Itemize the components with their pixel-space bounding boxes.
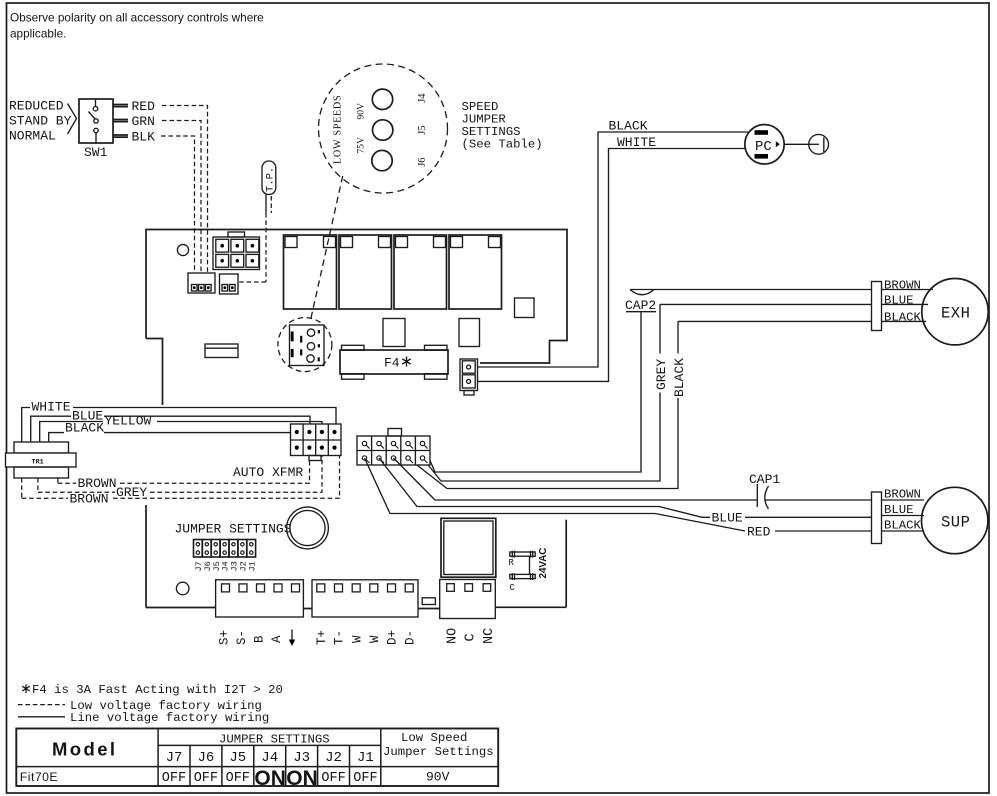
speed jumper settings note xyxy=(462,100,543,152)
svg-text:NORMAL: NORMAL xyxy=(9,129,56,144)
wall plug symbol xyxy=(809,134,829,154)
connector P3 (3-pin, SW1 wires) xyxy=(188,273,215,293)
label BLUE (SUP) xyxy=(884,503,914,517)
svg-text:R: R xyxy=(509,558,515,568)
label BLACK (SUP) xyxy=(884,519,922,533)
svg-text:STAND BY: STAND BY xyxy=(9,114,72,129)
board hole 2 xyxy=(176,582,189,595)
wire BLUE (EXH) xyxy=(660,303,928,305)
label GREY xyxy=(654,359,669,390)
svg-text:75V: 75V xyxy=(355,137,366,154)
svg-text:J4: J4 xyxy=(261,750,278,766)
labels J7-J1 xyxy=(194,561,257,571)
wire BROWN dashed (TR1) xyxy=(58,461,310,484)
svg-text:(See Table): (See Table) xyxy=(462,138,543,152)
svg-text:BLACK: BLACK xyxy=(65,420,104,435)
label BLACK (PC) xyxy=(609,119,648,134)
svg-text:BLUE: BLUE xyxy=(712,511,743,526)
svg-text:WHITE: WHITE xyxy=(32,400,71,415)
label down arrow xyxy=(289,630,295,647)
wire GRN dashed xyxy=(162,121,201,274)
switch SW1 bracket xyxy=(68,104,77,135)
svg-text:J1: J1 xyxy=(247,561,257,571)
board jumper block dashed circle xyxy=(278,318,332,372)
svg-text:OFF: OFF xyxy=(321,771,345,786)
svg-text:W: W xyxy=(368,635,382,643)
label 90V xyxy=(356,103,367,120)
dashed leader to board jumper xyxy=(311,176,343,318)
label J6 xyxy=(417,157,428,166)
relay contact rect xyxy=(422,598,435,605)
capacitor CAP2 xyxy=(625,290,656,313)
wire R-C link xyxy=(529,556,531,574)
label 24VAC xyxy=(538,548,549,579)
svg-text:Line voltage factory wiring: Line voltage factory wiring xyxy=(70,711,269,725)
svg-text:B: B xyxy=(253,635,267,643)
svg-text:J3: J3 xyxy=(293,750,310,766)
svg-text:ON: ON xyxy=(254,767,286,790)
note F4 xyxy=(22,683,283,697)
svg-text:SW1: SW1 xyxy=(84,145,108,160)
svg-text:J1: J1 xyxy=(357,750,374,766)
relay K1 xyxy=(284,235,337,309)
svg-text:BLK: BLK xyxy=(132,129,156,144)
wire GREY vertical xyxy=(423,304,661,481)
wire BLACK to PC xyxy=(478,132,749,367)
label LOW SPEEDS xyxy=(333,95,344,164)
note text top-left xyxy=(10,11,264,41)
label AUTO XFMR xyxy=(233,465,303,480)
svg-text:J6: J6 xyxy=(198,750,215,766)
label YELLOW (TR1) xyxy=(105,414,152,429)
SW1 reference label xyxy=(84,145,108,160)
relay K3 xyxy=(394,235,447,309)
svg-text:NC: NC xyxy=(482,628,497,644)
wire GRN label xyxy=(132,114,155,129)
legend low voltage xyxy=(18,699,262,713)
wire WHITE (TR1) xyxy=(22,408,336,443)
label BLUE (EXH) xyxy=(884,293,914,307)
label WHITE (TR1) xyxy=(32,400,71,415)
svg-text:S+: S+ xyxy=(218,630,232,645)
component rect mid left xyxy=(383,319,405,347)
wire BLK label xyxy=(132,129,156,144)
svg-text:C: C xyxy=(464,633,479,641)
component square top right xyxy=(515,298,535,318)
label BLACK (vertical) xyxy=(672,358,687,397)
legend line voltage xyxy=(18,711,269,725)
svg-text:CAP1: CAP1 xyxy=(749,472,780,487)
supply motor SUP xyxy=(922,487,988,553)
label J4 xyxy=(417,93,428,103)
label BROWN (dash1) xyxy=(78,476,117,491)
svg-text:T-: T- xyxy=(333,630,347,645)
wire BLACK vertical xyxy=(408,321,678,488)
wire RED (SUP) xyxy=(365,458,925,531)
svg-text:BLACK: BLACK xyxy=(884,310,922,324)
svg-text:BLACK: BLACK xyxy=(884,519,922,533)
label J5 xyxy=(417,125,428,134)
SW1 pin stubs xyxy=(113,105,128,138)
svg-text:JUMPER SETTINGS: JUMPER SETTINGS xyxy=(175,521,292,536)
label BLACK (TR1) xyxy=(65,420,104,435)
relay 24VAC xyxy=(441,518,496,577)
wire BLACK (EXH) xyxy=(678,320,926,322)
relay K2 xyxy=(339,235,392,309)
terminal block TB2 xyxy=(312,580,418,617)
svg-text:GRN: GRN xyxy=(132,114,155,129)
svg-text:OFF: OFF xyxy=(194,771,218,786)
svg-text:RED: RED xyxy=(132,99,156,114)
svg-text:BLUE: BLUE xyxy=(884,503,914,517)
wire PC to plug xyxy=(784,143,809,145)
relay K4 xyxy=(449,235,502,309)
wire YELLOW (TR1) xyxy=(40,422,322,443)
svg-text:JUMPER SETTINGS: JUMPER SETTINGS xyxy=(219,732,330,746)
svg-text:BROWN: BROWN xyxy=(78,476,117,491)
wire WHITE to PC xyxy=(478,149,746,382)
svg-text:NO: NO xyxy=(446,628,461,644)
svg-text:A: A xyxy=(270,635,284,643)
label BLUE (TR1) xyxy=(72,408,103,423)
wire BLUE (SUP) xyxy=(379,458,924,517)
svg-text:OFF: OFF xyxy=(353,771,377,786)
svg-text:TR1: TR1 xyxy=(32,459,44,467)
svg-text:REDUCED: REDUCED xyxy=(9,99,64,114)
jumper block J7-J1 xyxy=(194,540,256,558)
label BROWN (dash2) xyxy=(70,492,109,507)
label JUMPER SETTINGS xyxy=(175,521,292,536)
labels S+ S- B A arrow xyxy=(218,630,285,645)
component bar left xyxy=(205,344,238,358)
power cord connector PC xyxy=(745,125,784,164)
svg-text:Jumper Settings: Jumper Settings xyxy=(383,745,494,759)
wire BROWN (EXH) xyxy=(630,289,933,291)
jumper C xyxy=(510,573,536,593)
label GREY (dash) xyxy=(116,485,147,500)
svg-text:C: C xyxy=(510,583,515,593)
svg-text:24VAC: 24VAC xyxy=(538,548,549,579)
svg-text:J2: J2 xyxy=(325,750,342,766)
svg-text:T+: T+ xyxy=(315,630,329,645)
connector P6 (2x5 motor) xyxy=(357,429,430,466)
wire CAP2 down xyxy=(423,312,642,472)
svg-text:BROWN: BROWN xyxy=(884,488,921,502)
connector AUTO XFMR (2x4) xyxy=(291,424,342,461)
exhaust motor EXH xyxy=(922,279,988,345)
wire RED label xyxy=(132,99,156,114)
exhaust motor connector bar xyxy=(872,282,882,331)
svg-text:ON: ON xyxy=(286,767,318,790)
svg-text:BROWN: BROWN xyxy=(70,492,109,507)
labels NO C NC xyxy=(446,628,497,644)
svg-text:J5: J5 xyxy=(417,125,428,134)
svg-text:Fit70E: Fit70E xyxy=(20,770,58,784)
svg-text:applicable.: applicable. xyxy=(10,27,66,41)
programming ring xyxy=(287,507,329,549)
jumper J6 pad xyxy=(372,150,392,170)
control board outline xyxy=(146,230,567,609)
terminal block TB1 xyxy=(216,580,304,617)
svg-text:J5: J5 xyxy=(229,750,246,766)
wire BLUE (TR1) xyxy=(31,416,310,442)
svg-text:RED: RED xyxy=(747,524,771,539)
svg-text:YELLOW: YELLOW xyxy=(105,414,152,429)
board speed jumper connector xyxy=(290,325,325,366)
svg-text:90V: 90V xyxy=(356,103,367,120)
component rect mid right xyxy=(459,319,480,347)
svg-text:AUTO XFMR: AUTO XFMR xyxy=(233,465,303,480)
svg-text:Model: Model xyxy=(52,739,117,760)
svg-text:BLACK: BLACK xyxy=(609,119,648,134)
label WHITE (PC) xyxy=(617,135,656,150)
svg-text:SUP: SUP xyxy=(941,513,970,531)
svg-text:EXH: EXH xyxy=(941,305,970,323)
svg-text:OFF: OFF xyxy=(226,771,250,786)
switch SW1 xyxy=(79,99,113,143)
wire RED dashed xyxy=(162,106,208,274)
jumper J4 pad xyxy=(372,89,392,109)
svg-text:Observe polarity on all access: Observe polarity on all accessory contro… xyxy=(10,11,264,25)
wire BROWN2 dashed (TR1) xyxy=(22,456,340,499)
table xyxy=(16,729,498,791)
board mounting hole xyxy=(177,244,188,255)
fuse F4 xyxy=(340,345,448,379)
svg-text:S-: S- xyxy=(235,630,249,645)
svg-text:OFF: OFF xyxy=(162,771,186,786)
wire BROWN (SUP) xyxy=(394,458,925,500)
svg-text:J6: J6 xyxy=(417,157,428,166)
svg-text:BLUE: BLUE xyxy=(884,293,914,307)
label BROWN (SUP) xyxy=(884,488,921,502)
svg-text:D+: D+ xyxy=(386,630,400,645)
svg-text:PC: PC xyxy=(755,139,772,155)
svg-text:WHITE: WHITE xyxy=(617,135,656,150)
label BLACK (EXH) xyxy=(884,310,922,324)
connector P4 (2-pin, T.P.) xyxy=(220,274,239,294)
wire BLACK (TR1) xyxy=(49,433,291,442)
switch SW1 labels xyxy=(9,99,72,144)
table headers J7-J1 xyxy=(166,750,374,766)
speed jumper detail dashed circle xyxy=(319,64,448,193)
connector P2 (2x3) xyxy=(213,232,260,270)
jumper J5 pad xyxy=(373,120,393,140)
svg-text:W: W xyxy=(350,635,364,643)
svg-text:D-: D- xyxy=(403,630,417,645)
svg-text:F4: F4 xyxy=(384,356,400,371)
svg-text:Low Speed: Low Speed xyxy=(401,731,467,745)
test point T.P. xyxy=(262,161,277,195)
svg-text:BLACK: BLACK xyxy=(672,358,687,397)
jumper R xyxy=(509,551,536,568)
label 75V xyxy=(355,137,366,154)
svg-text:J7: J7 xyxy=(166,750,183,766)
label BROWN (EXH) xyxy=(884,278,921,292)
capacitor CAP1 xyxy=(749,472,780,509)
supply motor connector bar xyxy=(872,492,882,544)
terminal block TB3 xyxy=(440,580,496,619)
label BLUE (SUP wire) xyxy=(712,511,743,526)
wire GREY dashed (TR1) xyxy=(38,456,322,493)
labels T+ T- W W D+ D- xyxy=(315,630,417,645)
transformer TR1 xyxy=(6,442,77,478)
connector P5 (2-pin line) xyxy=(460,359,478,395)
svg-text:BROWN: BROWN xyxy=(884,278,921,292)
svg-text:T.P.: T.P. xyxy=(265,167,277,192)
svg-text:LOW SPEEDS: LOW SPEEDS xyxy=(333,95,344,164)
svg-text:GREY: GREY xyxy=(654,359,669,390)
svg-text:J4: J4 xyxy=(417,93,428,103)
wire BLK dashed xyxy=(161,136,195,273)
svg-text:90V: 90V xyxy=(426,770,450,785)
svg-text:F4 is 3A Fast Acting with I2T: F4 is 3A Fast Acting with I2T > 20 xyxy=(32,683,283,697)
svg-text:CAP2: CAP2 xyxy=(625,298,656,313)
wire T.P. dashed xyxy=(238,195,271,283)
label RED xyxy=(747,524,771,539)
